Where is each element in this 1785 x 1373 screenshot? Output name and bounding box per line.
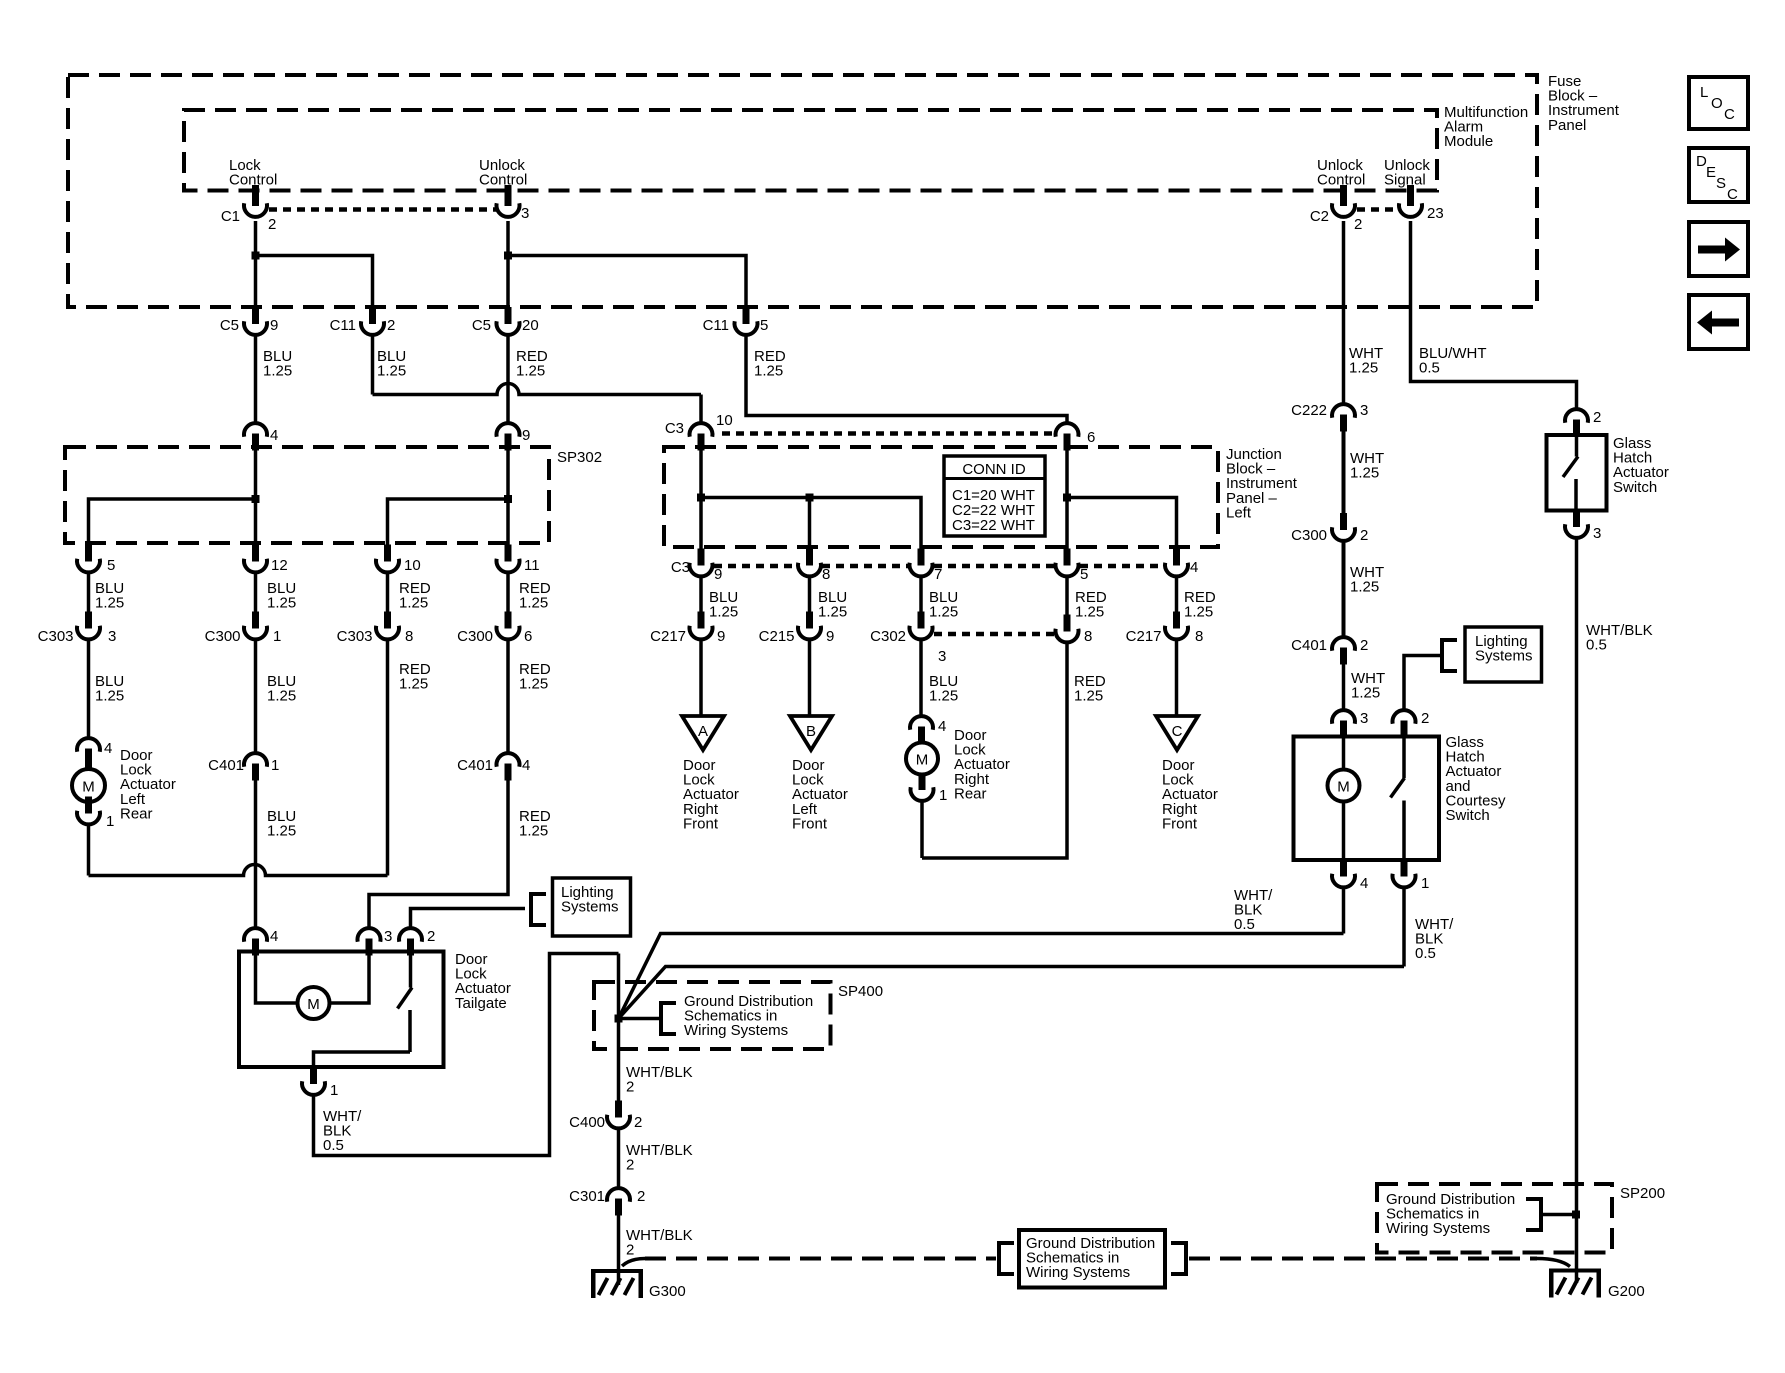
wire: C303-8 down to return junction [386, 640, 390, 876]
svg-text:RED1.25: RED1.25 [754, 348, 786, 380]
connector C2 pin 23 (Unlock Signal) [1399, 189, 1422, 217]
svg-text:BLU1.25: BLU1.25 [263, 348, 292, 380]
wire: C300 to C401 [1342, 541, 1346, 637]
svg-text:C302: C302 [870, 628, 906, 645]
wire: tailgate pin 4 to motor [256, 952, 298, 1003]
svg-text:C11: C11 [703, 317, 729, 334]
svg-text:UnlockControl: UnlockControl [1317, 157, 1365, 189]
svg-text:4: 4 [1190, 559, 1198, 576]
off-page bracket to Lighting Systems (right) [1442, 640, 1457, 671]
junction at SP200 [1572, 1211, 1580, 1219]
svg-text:B: B [806, 723, 816, 740]
svg-text:C400: C400 [569, 1114, 605, 1131]
connector glass hatch switch pin 3 [1565, 510, 1588, 538]
connector SP302 pin 5 [77, 545, 100, 573]
wire: SP302 branch to pin 10 [388, 499, 509, 545]
svg-text:SP200: SP200 [1620, 1185, 1665, 1202]
svg-text:C217: C217 [1126, 628, 1162, 645]
wire: C401-4 to tailgate pin 3 [369, 780, 508, 928]
svg-text:4: 4 [938, 718, 946, 735]
wire: C222 to C300 [1342, 431, 1346, 514]
wire: branch to C3-8 [808, 498, 812, 550]
connector C3 pin 8 [798, 549, 821, 577]
connector glass hatch switch pin 2 [1565, 409, 1588, 436]
svg-text:BLU1.25: BLU1.25 [709, 589, 738, 621]
svg-text:M: M [307, 996, 320, 1013]
wire: C2-2 down to C222-3 [1342, 221, 1346, 404]
wire: C400 to C301 [617, 1129, 621, 1189]
wire: C302-3 down to right rear actuator [919, 640, 923, 717]
connector courtesy switch pin 1 [1393, 860, 1416, 888]
svg-text:LightingSystems: LightingSystems [1475, 633, 1533, 665]
wire: C3-5 to C302-8 [1065, 577, 1069, 616]
connector C3 pin 6 [1056, 423, 1079, 450]
connector C400 pin 2 [607, 1101, 630, 1129]
nav box LOC [1689, 77, 1748, 129]
junction block - instrument panel left dashed box [664, 447, 1218, 547]
connector pin 4 (right rear actuator) [910, 716, 933, 743]
svg-text:4: 4 [270, 928, 278, 945]
svg-text:3: 3 [384, 928, 392, 945]
bracket left of ground distribution box [999, 1243, 1014, 1274]
wire: glass hatch switch pin 3 down to G200 [1575, 538, 1579, 1283]
off-page bracket to Lighting Systems [531, 894, 546, 925]
svg-text:C300: C300 [205, 628, 241, 645]
wire: bracket to SP200 junction [1541, 1213, 1576, 1217]
wire: SP400 to ground distribution bracket [619, 1017, 662, 1021]
junction (RED net) [1063, 494, 1071, 502]
wire: left rear actuator pin 1 down [87, 825, 91, 876]
wire: courtesy pin 4 down [1342, 888, 1346, 934]
wire: down through SP400 to C400 [617, 954, 621, 1102]
splice SP200 dashed box [1377, 1184, 1612, 1253]
connector C215 pin 9 [798, 612, 821, 640]
svg-text:C300: C300 [1291, 527, 1327, 544]
connector C401 pin 4 [497, 753, 520, 780]
connector face dotted line C3 top row [722, 431, 1054, 436]
wire: branch to C3-4 [1067, 498, 1177, 550]
connector C300 pin 2 [1332, 513, 1355, 541]
wire: C301 to ground G300 [617, 1215, 621, 1285]
svg-text:C1=20 WHTC2=22 WHTC3=22 WHT: C1=20 WHTC2=22 WHTC3=22 WHT [952, 487, 1035, 534]
wire: C11-2 down [371, 335, 375, 395]
svg-text:RED1.25: RED1.25 [399, 661, 431, 693]
svg-text:3: 3 [1360, 710, 1368, 727]
svg-text:L: L [1700, 84, 1708, 101]
svg-text:C303: C303 [337, 628, 373, 645]
splice block SP302 dashed box [65, 447, 549, 543]
connector C401 pin 1 [244, 753, 267, 780]
wire: SP302 pin 4 to pin 12 [254, 450, 258, 545]
svg-text:2: 2 [268, 216, 276, 233]
wire: motor to tailgate pin 3 [330, 952, 369, 1003]
wire: C217-9 down to triangle A [699, 640, 703, 717]
svg-text:10: 10 [716, 412, 733, 429]
svg-text:RED1.25: RED1.25 [1184, 589, 1216, 621]
lighting systems box (right) [1465, 627, 1542, 682]
svg-text:1: 1 [273, 628, 281, 645]
svg-text:BLU1.25: BLU1.25 [267, 808, 296, 840]
motor M - door lock actuator right rear [906, 743, 938, 775]
svg-text:BLU1.25: BLU1.25 [267, 673, 296, 705]
svg-text:SP302: SP302 [557, 449, 602, 466]
ground distribution dashed wire [622, 1259, 645, 1267]
connector C2 pin 2 (Unlock Control) [1332, 189, 1355, 217]
wire: SP302-11 to C300-6 [506, 573, 510, 613]
fuse block - instrument panel dashed box [68, 75, 1537, 307]
svg-text:2: 2 [1421, 710, 1429, 727]
off-page bracket SP200 ground distribution [1526, 1199, 1541, 1230]
motor M - door lock actuator left rear [72, 769, 105, 802]
wire: motor to pin 4 [1342, 801, 1346, 860]
wire: return to C302-8 [922, 641, 1067, 858]
connector courtesy switch pin 3 [1332, 710, 1355, 737]
multifunction alarm module dashed box [184, 110, 1437, 191]
wire: SP302-12 to C300-1 [254, 573, 258, 613]
svg-text:5: 5 [107, 557, 115, 574]
svg-text:M: M [1337, 779, 1350, 796]
ground G300 [591, 1269, 643, 1298]
svg-text:BLU1.25: BLU1.25 [818, 589, 847, 621]
svg-text:RED1.25: RED1.25 [519, 661, 551, 693]
splice SP400 dashed box [594, 982, 831, 1049]
wire: C1-2 down to C5-9 [254, 221, 258, 308]
svg-text:RED1.25: RED1.25 [519, 580, 551, 612]
wire: C401-2 down to courtesy switch pin 3 [1342, 664, 1346, 710]
wire: SP302 branch to pin 5 [89, 499, 256, 545]
junction at SP400 [615, 1015, 623, 1023]
wire: C303-3 down to actuator [87, 640, 91, 739]
connector C300 pin 1 [244, 612, 267, 640]
nav box arrow right [1689, 222, 1748, 276]
wire: C5-20 down to SP302 pin 9 [506, 335, 510, 423]
off-page connector triangle B [790, 716, 832, 750]
svg-text:O: O [1711, 95, 1723, 112]
svg-text:2: 2 [637, 1188, 645, 1205]
svg-text:8: 8 [1195, 628, 1203, 645]
connector C3 pin 5 [1056, 549, 1079, 577]
svg-text:4: 4 [104, 740, 112, 757]
svg-text:UnlockSignal: UnlockSignal [1384, 157, 1430, 189]
svg-text:3: 3 [1593, 525, 1601, 542]
svg-text:2: 2 [1593, 409, 1601, 426]
svg-text:CONN ID: CONN ID [962, 461, 1026, 478]
connector SP302 pin 12 [244, 545, 267, 573]
nav box arrow left [1689, 295, 1748, 349]
svg-text:11: 11 [524, 557, 540, 574]
svg-text:WHT1.25: WHT1.25 [1350, 450, 1384, 482]
svg-text:E: E [1706, 164, 1716, 181]
svg-text:1: 1 [330, 1082, 338, 1099]
svg-text:BLU1.25: BLU1.25 [95, 673, 124, 705]
svg-text:LightingSystems: LightingSystems [561, 884, 619, 916]
svg-text:8: 8 [405, 628, 413, 645]
svg-text:4: 4 [270, 427, 278, 444]
svg-text:5: 5 [760, 317, 768, 334]
connector C3 pin 4 [1165, 549, 1188, 577]
wire: down to C3 pin 10 [699, 395, 703, 424]
wire: C1-3 down to C5-20 [506, 221, 510, 308]
svg-text:RED1.25: RED1.25 [519, 808, 551, 840]
off-page bracket SP400 ground distribution [661, 1003, 676, 1034]
wire: tailgate pin 1 to SP400 [314, 954, 619, 1156]
wire: glass hatch actuator pin 1 to SP400 (diagonal) [619, 967, 1405, 1019]
svg-text:1: 1 [271, 757, 279, 774]
connector pin 1 (left rear actuator) [77, 797, 100, 825]
wire: C3-7 to C302-3 [919, 577, 923, 613]
off-page connector triangle A [682, 716, 724, 750]
wire: C401-1 down to tailgate pin 4 [254, 780, 258, 928]
wire: C11-2 right to junction block pin 10 (hop over unlock wire) [373, 384, 702, 395]
courtesy switch contact [1391, 737, 1405, 860]
wire: C300-6 down to C401-4 [506, 640, 510, 754]
connector face dotted line C302 [934, 632, 1055, 637]
svg-text:G200: G200 [1608, 1283, 1645, 1300]
svg-text:12: 12 [271, 557, 288, 574]
svg-text:BLU1.25: BLU1.25 [95, 580, 124, 612]
ground G200 [1549, 1269, 1601, 1298]
ground distribution schematics box [1019, 1230, 1165, 1288]
wire: C2-23 to glass hatch switch pin 2 [1411, 221, 1577, 409]
wire: SP302-5 to C303-3 [87, 573, 91, 613]
svg-text:8: 8 [1084, 628, 1092, 645]
svg-text:M: M [82, 779, 95, 796]
wire: branch to C3-7 [701, 498, 921, 550]
svg-text:C303: C303 [38, 628, 74, 645]
svg-text:C217: C217 [650, 628, 686, 645]
connector C5 pin 9 [244, 307, 267, 335]
svg-text:2: 2 [387, 317, 395, 334]
connector C301 pin 2 [607, 1188, 630, 1215]
svg-text:C3: C3 [665, 420, 684, 437]
connector C401 pin 2 [1332, 637, 1355, 664]
wire: SP302 pin 9 to pin 11 [506, 450, 510, 545]
wire: glass hatch actuator pin 4 to SP400 (diagonal) [619, 934, 1344, 1019]
svg-text:C11: C11 [330, 317, 356, 334]
svg-text:C: C [1727, 186, 1738, 203]
lighting systems box (left) [553, 878, 631, 936]
svg-text:6: 6 [1087, 429, 1095, 446]
svg-text:7: 7 [934, 566, 942, 583]
svg-text:20: 20 [522, 317, 539, 334]
svg-text:C215: C215 [759, 628, 795, 645]
svg-text:G300: G300 [649, 1283, 686, 1300]
connector C1 pin 3 (Unlock Control) [497, 189, 520, 217]
svg-text:4: 4 [522, 757, 530, 774]
svg-text:1: 1 [939, 787, 947, 804]
svg-text:C5: C5 [472, 317, 491, 334]
wire: C3-6 to C3-5 [1065, 450, 1069, 549]
connector SP302 pin 4 [244, 423, 267, 450]
bracket right of ground distribution box [1171, 1243, 1186, 1274]
svg-text:6: 6 [524, 628, 532, 645]
connector tailgate pin 2 [399, 928, 422, 955]
svg-text:WHT1.25: WHT1.25 [1349, 345, 1383, 377]
svg-text:RED1.25: RED1.25 [399, 580, 431, 612]
wire: C5-9 down to SP302 pin 4 [254, 335, 258, 423]
connector face dotted line C1 [269, 207, 496, 212]
svg-text:WHT1.25: WHT1.25 [1350, 564, 1384, 596]
svg-text:1: 1 [106, 813, 114, 830]
junction in SP302 (lock net) [252, 495, 260, 503]
motor M - tailgate actuator [298, 987, 330, 1019]
connector courtesy switch pin 2 [1393, 710, 1416, 737]
svg-text:C: C [1172, 723, 1183, 740]
svg-text:3: 3 [108, 628, 116, 645]
svg-text:SP400: SP400 [838, 983, 883, 1000]
svg-text:WHT1.25: WHT1.25 [1351, 670, 1385, 702]
wire: C11-5 to junction block pin 6 [746, 335, 1067, 423]
wire: courtesy pin 2 to lighting systems [1404, 656, 1442, 711]
connector pin 1 (right rear actuator) [911, 773, 934, 801]
svg-text:3: 3 [521, 205, 529, 222]
svg-text:4: 4 [1360, 875, 1368, 892]
svg-text:C: C [1724, 106, 1735, 123]
wire: right rear pin 1 down [920, 801, 924, 858]
wire: SP302-10 to C303-8 [386, 573, 390, 613]
CONN ID table [944, 456, 1045, 536]
connector C3 pin 7 [910, 549, 933, 577]
svg-text:C5: C5 [220, 317, 239, 334]
svg-text:2: 2 [1360, 527, 1368, 544]
svg-text:BLU1.25: BLU1.25 [267, 580, 296, 612]
connector C303 pin 8 [376, 612, 399, 640]
svg-text:S: S [1716, 175, 1726, 192]
svg-text:10: 10 [404, 557, 421, 574]
connector tailgate pin 4 [244, 928, 267, 955]
wire: pin 3 to motor [1342, 737, 1346, 770]
svg-text:5: 5 [1080, 566, 1088, 583]
connector face dotted line C2 [1357, 207, 1398, 212]
svg-text:UnlockControl: UnlockControl [479, 157, 527, 189]
motor M - glass hatch actuator [1328, 770, 1360, 802]
tailgate courtesy switch [398, 952, 413, 1052]
connector C222 pin 3 [1332, 404, 1355, 431]
svg-text:2: 2 [1354, 216, 1362, 233]
wire: C215-9 down to triangle B [808, 640, 812, 717]
svg-text:8: 8 [822, 566, 830, 583]
connector SP302 pin 10 [376, 545, 399, 573]
svg-text:23: 23 [1427, 205, 1444, 222]
wire: switch to tailgate pin 1 [314, 1052, 411, 1067]
svg-text:1: 1 [1421, 875, 1429, 892]
svg-text:RED1.25: RED1.25 [1074, 673, 1106, 705]
svg-text:C2: C2 [1310, 208, 1329, 225]
svg-text:M: M [916, 752, 929, 769]
junction (BLU net) [697, 494, 705, 502]
connector SP302 pin 9 [497, 423, 520, 450]
connector C217 pin 9 [690, 612, 713, 640]
connector C303 pin 3 [77, 612, 100, 640]
wire: C3-4 to C217-8 [1175, 577, 1179, 613]
svg-text:RED1.25: RED1.25 [1075, 589, 1107, 621]
connector courtesy switch pin 4 [1332, 860, 1355, 888]
wire: tailgate pin 2 to lighting systems [411, 909, 526, 929]
svg-text:C401: C401 [208, 757, 244, 774]
connector face dotted line C3 [714, 564, 797, 569]
svg-text:C222: C222 [1291, 402, 1327, 419]
connector C302 pin 8 [1056, 615, 1079, 643]
glass hatch actuator and courtesy switch box [1294, 737, 1440, 861]
svg-text:2: 2 [634, 1114, 642, 1131]
connector C11 pin 2 [361, 307, 384, 335]
svg-text:C300: C300 [457, 628, 493, 645]
nav box DESC [1689, 148, 1748, 203]
svg-text:A: A [698, 723, 708, 740]
svg-text:C401: C401 [457, 757, 493, 774]
connector C1 pin 2 (Lock Control) [244, 189, 267, 217]
wire: branch to C11-2 [256, 256, 373, 309]
svg-text:9: 9 [522, 427, 530, 444]
svg-text:BLU1.25: BLU1.25 [929, 589, 958, 621]
connector pin 4 (left rear actuator) [77, 738, 100, 765]
junction at (255,255) [252, 252, 260, 260]
svg-text:3: 3 [1360, 402, 1368, 419]
svg-text:C401: C401 [1291, 637, 1327, 654]
connector SP302 pin 11 [497, 545, 520, 573]
wire: C3-9 to C217-9 [699, 577, 703, 613]
connector C11 pin 5 [735, 307, 758, 335]
svg-text:9: 9 [717, 628, 725, 645]
connector C3 pin 9 [690, 549, 713, 577]
svg-text:BLU1.25: BLU1.25 [929, 673, 958, 705]
connector C217 pin 8 [1165, 612, 1188, 640]
svg-text:2: 2 [427, 928, 435, 945]
junction to C3-8 [806, 494, 814, 502]
svg-text:C3: C3 [671, 559, 690, 576]
junction at (508,255) [504, 252, 512, 260]
glass hatch actuator switch box [1547, 435, 1607, 511]
svg-text:RED1.25: RED1.25 [516, 348, 548, 380]
wire: courtesy pin 1 down [1402, 888, 1406, 967]
off-page connector triangle C [1156, 716, 1198, 750]
connector C5 pin 20 [497, 307, 520, 335]
glass hatch switch contact [1563, 437, 1578, 510]
svg-text:C1: C1 [221, 208, 240, 225]
svg-text:3: 3 [938, 648, 946, 665]
wire: branch to C11-5 [508, 256, 746, 309]
door lock actuator tailgate box [239, 952, 444, 1068]
connector tailgate pin 3 [358, 928, 381, 955]
svg-text:9: 9 [826, 628, 834, 645]
wire: C3-8 to C215-9 [808, 577, 812, 613]
svg-text:C301: C301 [569, 1188, 605, 1205]
wire: left rear actuator return to C303-8 (hop over BLU wire) [89, 865, 388, 876]
wire: C217-8 down to triangle C [1175, 640, 1179, 717]
connector C302 pin 3 [910, 612, 933, 640]
wire: C300-1 down to C401-1 [254, 640, 258, 754]
connector C3 pin 10 [690, 423, 713, 450]
wire: C3-10 to C3-9 [699, 450, 703, 549]
svg-text:9: 9 [270, 317, 278, 334]
connector tailgate pin 1 [302, 1067, 325, 1095]
svg-text:9: 9 [714, 566, 722, 583]
svg-text:BLU1.25: BLU1.25 [377, 348, 406, 380]
junction in SP302 (unlock net) [504, 495, 512, 503]
svg-text:2: 2 [1360, 637, 1368, 654]
connector C300 pin 6 [497, 612, 520, 640]
